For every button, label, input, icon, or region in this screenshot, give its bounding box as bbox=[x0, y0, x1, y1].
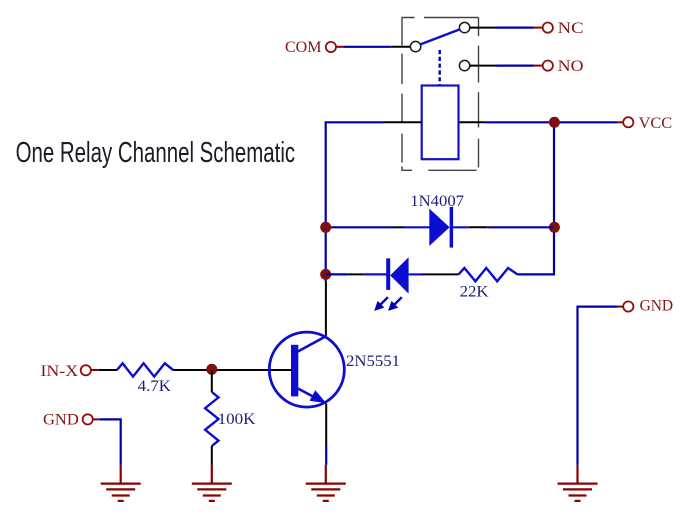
wire 100K down bbox=[211, 446, 213, 465]
terminal IN-X bbox=[81, 365, 91, 375]
relay dashed box bbox=[402, 18, 479, 171]
wire GND right stub bbox=[617, 306, 623, 308]
terminal GND right bbox=[623, 301, 633, 311]
terminal NO bbox=[543, 61, 553, 71]
pin NC bbox=[470, 27, 497, 29]
wire junction to base bbox=[212, 369, 291, 371]
pin coil right bbox=[460, 121, 485, 123]
diode 1N4007 bbox=[429, 207, 453, 248]
wire COM stub bbox=[336, 46, 344, 48]
svg-text:NC: NC bbox=[558, 20, 584, 37]
wire right vertical lower bbox=[518, 227, 554, 274]
junction diode right bbox=[549, 222, 560, 233]
LED D2 bbox=[386, 257, 408, 293]
wire emitter navy bbox=[325, 444, 327, 465]
wire GND left stub bbox=[93, 418, 100, 420]
svg-text:NO: NO bbox=[558, 58, 584, 75]
junction base bbox=[206, 364, 217, 375]
wire IN-X stub bbox=[91, 369, 99, 371]
ground emitter bbox=[306, 465, 346, 501]
pin COM switch bbox=[391, 46, 410, 48]
junction diode left bbox=[320, 222, 331, 233]
wire VCC bbox=[554, 121, 617, 123]
wire COM to switch bbox=[344, 46, 392, 48]
resistor 100K bbox=[205, 392, 218, 446]
wire IN-X to resistor bbox=[99, 369, 117, 371]
pin LED cathode bbox=[364, 273, 387, 275]
ground 100K bbox=[192, 465, 232, 501]
junction VCC bbox=[549, 117, 560, 128]
resistor 22K bbox=[458, 268, 517, 281]
pin coil left bbox=[383, 121, 421, 123]
svg-text:22K: 22K bbox=[460, 283, 489, 300]
terminal COM bbox=[326, 42, 336, 52]
wire LED row black bbox=[348, 273, 364, 275]
relay switch NC contact bbox=[459, 22, 469, 32]
junction LED left bbox=[320, 269, 331, 280]
relay actuator dotted link bbox=[439, 50, 441, 85]
svg-text:1N4007: 1N4007 bbox=[410, 193, 464, 210]
wire NO bbox=[496, 64, 533, 66]
svg-text:2N5551: 2N5551 bbox=[346, 353, 400, 370]
wire NO stub bbox=[534, 65, 543, 67]
wire resistor to junction bbox=[173, 369, 212, 371]
wire GND left bbox=[100, 419, 121, 465]
LED arrow 2 bbox=[388, 297, 402, 311]
wire diode cathode black bbox=[470, 226, 488, 228]
wire GND right bbox=[578, 307, 618, 465]
relay switch pole contact bbox=[410, 41, 420, 51]
pin LED anode bbox=[409, 273, 423, 275]
svg-text:COM: COM bbox=[285, 39, 322, 56]
relay coil K1 bbox=[422, 86, 459, 160]
wire NC bbox=[496, 27, 533, 29]
transistor 2N5551 bbox=[269, 332, 344, 407]
terminal VCC bbox=[623, 117, 633, 127]
resistor 4.7K bbox=[117, 363, 173, 376]
svg-text:100K: 100K bbox=[218, 411, 256, 428]
wire diode row left bbox=[326, 226, 393, 228]
svg-text:One Relay Channel Schematic: One Relay Channel Schematic bbox=[16, 137, 296, 169]
pin NO bbox=[470, 65, 497, 67]
wire LED row left bbox=[326, 273, 348, 275]
wire diode to junction bbox=[487, 226, 554, 228]
wire collector up bbox=[325, 282, 327, 337]
wire right vertical bbox=[553, 122, 555, 227]
svg-text:VCC: VCC bbox=[639, 115, 673, 132]
wire NC stub bbox=[534, 27, 543, 29]
terminal NC bbox=[543, 23, 553, 33]
wire emitter down bbox=[325, 404, 327, 445]
svg-text:GND: GND bbox=[43, 412, 79, 429]
wire LED to resistor bbox=[423, 273, 459, 275]
relay switch arm bbox=[420, 29, 459, 44]
wire junction down bbox=[211, 370, 213, 392]
wire VCC stub bbox=[617, 121, 623, 123]
relay switch NO contact bbox=[459, 60, 469, 70]
pin diode cathode bbox=[453, 226, 470, 228]
wire relay row left bbox=[326, 122, 384, 281]
LED arrow 1 bbox=[374, 297, 388, 311]
pin diode anode bbox=[404, 226, 430, 228]
svg-text:IN-X: IN-X bbox=[41, 363, 79, 380]
svg-text:4.7K: 4.7K bbox=[138, 378, 172, 395]
svg-text:GND: GND bbox=[640, 298, 674, 315]
wire coil to VCC junction bbox=[485, 121, 554, 123]
ground GND right bbox=[558, 465, 598, 501]
terminal GND left bbox=[83, 414, 93, 424]
ground GND left bbox=[101, 465, 141, 501]
wire diode row black bbox=[393, 226, 404, 228]
